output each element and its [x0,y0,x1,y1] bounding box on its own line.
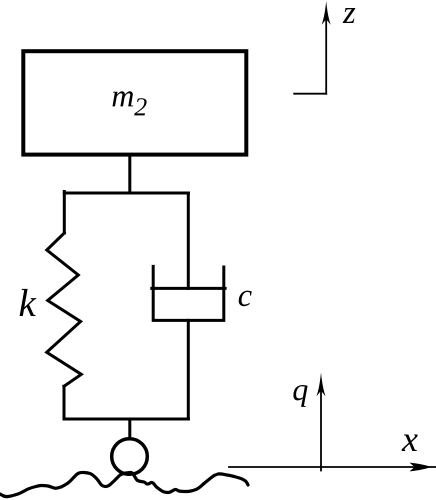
damper bottom rod [187,320,190,419]
label subscript 2 [134,98,146,115]
wheel [112,439,148,475]
top bar of spring-damper frame [64,192,188,195]
damper cylinder cup [153,266,224,320]
z axis foot [294,93,326,95]
label z [343,8,356,23]
wire stem from mass to frame [128,157,131,194]
q axis arrowhead [317,373,326,397]
x axis horizontal line [229,466,436,468]
label m [113,91,134,106]
label k [20,289,37,316]
spring bottom lead [63,386,66,419]
ground wavy line [0,472,248,496]
damper piston plate [152,287,225,290]
bottom bar of frame [64,418,188,421]
z axis arrowhead [322,1,331,25]
label x [402,435,418,452]
q axis vertical line [320,390,322,471]
x axis arrowhead [410,463,432,472]
label q [293,385,307,407]
damper top rod [187,193,190,288]
spring K top lead [63,192,66,234]
mass box m2 [23,51,246,154]
z axis vertical line [325,18,327,94]
label c [239,291,252,307]
wire stem to wheel [128,419,131,439]
spring k zigzag [47,233,82,386]
